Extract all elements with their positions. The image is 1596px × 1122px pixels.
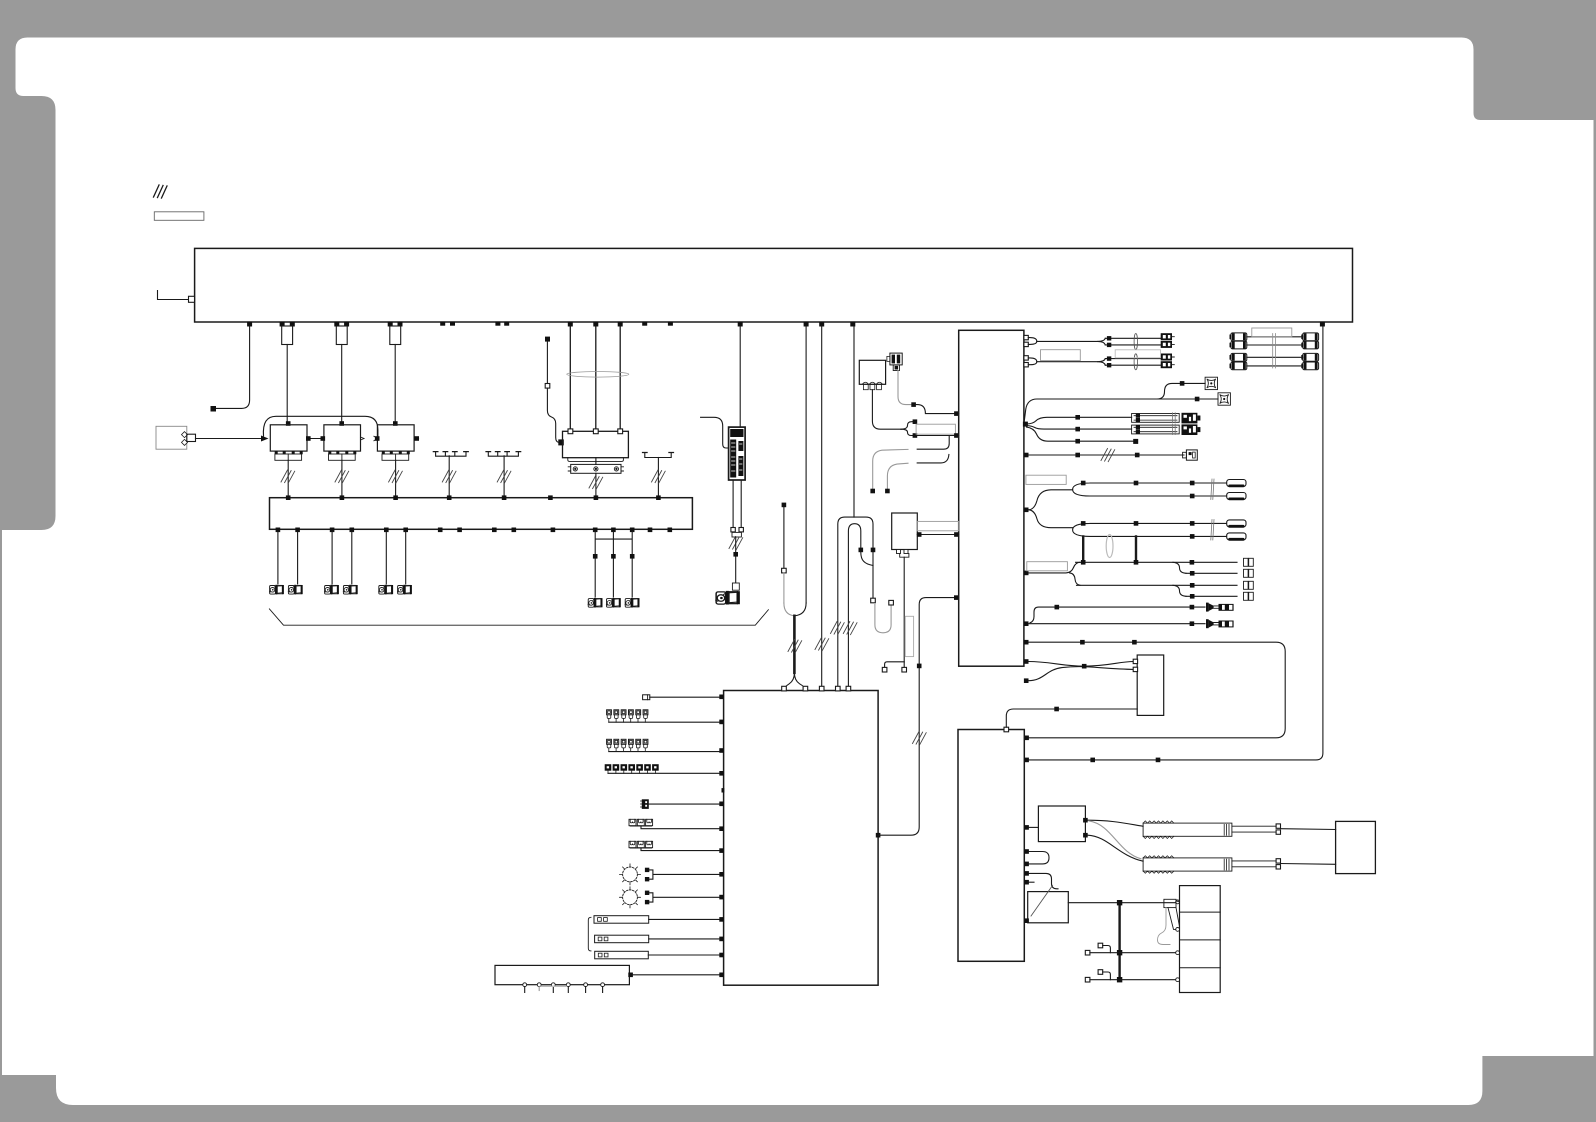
solenoid V4 — [343, 585, 358, 595]
harness label C (gray) — [1252, 328, 1292, 337]
harness label (gray) — [905, 616, 913, 656]
audio head unit — [729, 427, 746, 480]
fuse F3 — [390, 326, 401, 345]
feed row 3 — [1070, 573, 1254, 589]
bus2 top pins — [286, 495, 661, 500]
connector loop inner — [848, 524, 860, 691]
stub loop (gray U) — [875, 605, 891, 633]
input: lamp row 1 — [607, 710, 720, 722]
JB lower plate — [568, 458, 624, 462]
solenoid V3 — [324, 585, 339, 595]
ground connector group T2 — [488, 452, 518, 457]
keyless control box — [495, 965, 719, 992]
twin output row B — [1024, 354, 1174, 370]
solenoid V2 — [288, 585, 303, 595]
input: lamp row 2 — [607, 739, 720, 751]
twisted pair to relay box — [1024, 659, 1029, 664]
ECM loop wire around — [1024, 640, 1285, 740]
wire bus to audio unit — [739, 326, 741, 427]
ECU output to relay block (long riser) — [876, 833, 881, 838]
BCM stub hook — [1024, 871, 1029, 876]
branch risers — [917, 436, 949, 450]
antenna motor — [716, 591, 740, 605]
condenser fan box 2 — [1218, 393, 1230, 405]
harness loop (gray ellipse) — [1106, 535, 1113, 558]
wire R1-R2 — [307, 438, 324, 440]
wire bus to ECU pin — [821, 326, 823, 691]
input: motor group 1 — [629, 819, 719, 828]
oxygen sensor run — [1024, 449, 1197, 462]
fan wire 1 — [1157, 383, 1205, 399]
relay R1 — [286, 421, 291, 426]
harness label A (gray) — [1041, 350, 1081, 361]
wire R2-R3 — [361, 436, 378, 441]
body control module (lower right) — [958, 730, 1024, 962]
wire crossing hatch mark top-left — [154, 185, 168, 198]
door lock connector group 1 — [1230, 333, 1319, 349]
ground connector group T1 — [436, 452, 466, 457]
gray jumper bar — [917, 521, 958, 530]
sensor run 1 — [1027, 413, 1201, 424]
bundle point — [1023, 422, 1028, 427]
relay box K1 — [1137, 655, 1164, 715]
feed row 4 — [1173, 585, 1253, 600]
harness label E (gray) — [1027, 562, 1068, 571]
solenoid V7 — [588, 598, 603, 608]
BCM top feed to relay box — [1004, 727, 1009, 732]
wire switch to lamp block — [1068, 902, 1175, 904]
injector group bracket — [595, 532, 632, 597]
input: motor group 2 — [629, 841, 719, 850]
rear lamp cluster — [1180, 886, 1221, 993]
ground bus bar (second junction block) — [270, 498, 693, 530]
strip bracket — [588, 917, 591, 951]
ignition switch box — [1024, 880, 1029, 885]
wire bus to loop joint — [853, 326, 855, 517]
sensor run 3 — [1027, 427, 1139, 444]
wire sensor to relay R1 — [196, 438, 263, 440]
engine control module — [959, 330, 1024, 666]
junction box JB — [563, 431, 629, 457]
node IG input — [158, 291, 190, 300]
harness loop ellipse — [567, 372, 629, 378]
input: switch block — [641, 799, 720, 809]
ECU top pins — [782, 686, 851, 691]
relay strip (gray) — [916, 424, 955, 434]
harness label B (gray) — [1115, 350, 1160, 358]
feed wire with node (capsule left) — [782, 503, 787, 508]
solenoid V6 — [397, 585, 412, 595]
blower relay box — [1024, 825, 1029, 830]
wire to audio unit left — [701, 417, 729, 448]
twin output row A — [1024, 333, 1174, 349]
wire diag to module — [917, 534, 958, 536]
bus2 bottom pins — [276, 528, 672, 533]
condenser fan box 1 — [1205, 377, 1217, 389]
solenoid pair 2 wires — [332, 532, 352, 584]
terminal pins on main bus bottom edge — [247, 322, 1325, 327]
solenoid V8 — [606, 598, 621, 608]
connector loop outer — [838, 517, 873, 690]
harness ties — [1273, 334, 1276, 369]
sensor box (gray, far left) — [156, 426, 187, 449]
solenoid V5 — [379, 585, 394, 595]
three feed wires to junction box JB — [570, 326, 620, 429]
relay R2 — [339, 421, 344, 426]
lamp feed row 2 — [1085, 977, 1090, 982]
solenoid V9 — [625, 598, 640, 608]
antenna feed wire — [735, 537, 737, 583]
heater element 1 — [1088, 820, 1143, 826]
headlamp feed risers (thick) — [1083, 536, 1136, 562]
input: sensor strip 1 — [594, 916, 719, 924]
lamp cluster junction block — [1164, 899, 1176, 907]
horn unit — [859, 360, 885, 389]
input: sensor strip 2 — [595, 935, 720, 943]
blower motor box — [1336, 821, 1376, 873]
diagnostic ground wire — [903, 557, 905, 667]
relay R3 — [393, 421, 398, 426]
ECU left edge pins — [719, 695, 724, 978]
JB bolt strip — [571, 464, 621, 473]
headlamp bundle lower — [1029, 510, 1247, 541]
coil wire — [898, 371, 911, 405]
harness label D (gray) — [1026, 475, 1066, 484]
dangling feed wire with node — [545, 337, 550, 342]
feed row 1 — [1024, 558, 1253, 575]
Y split to ECU — [784, 673, 805, 691]
input: fan motor 1 — [620, 864, 720, 885]
fuse F2 — [336, 326, 347, 345]
sensor run 2 — [1027, 424, 1201, 435]
BCM output riser to main bus — [1024, 758, 1029, 763]
fan wire 2 — [1024, 399, 1218, 422]
main power bus B+ (top junction block) — [195, 248, 1353, 322]
feed row 2 — [1173, 562, 1253, 577]
gray jumper wires — [873, 449, 908, 489]
wire from bus to node (left drop) — [216, 326, 250, 408]
main riser (thick) — [1118, 903, 1120, 981]
BCM jumper loop — [1024, 849, 1029, 854]
input: sensor strip 3 — [595, 951, 720, 959]
fuse F1 — [282, 326, 293, 345]
label box (empty legend) — [154, 212, 204, 221]
bypass wire over relays — [263, 416, 378, 438]
headlamp bundle upper — [1024, 479, 1246, 512]
horn wire to junction — [872, 390, 901, 430]
stub on R3 right — [414, 438, 418, 440]
ground connector T3 — [645, 453, 671, 458]
input: indicator row — [605, 764, 720, 773]
door lock connector group 2 — [1230, 353, 1319, 369]
audio unit harness — [733, 480, 741, 528]
wire to engine module — [917, 435, 959, 437]
lamp feed row 1 — [1085, 950, 1090, 955]
solenoid pair 3 wires — [386, 532, 405, 584]
body ECU (central module) — [724, 691, 879, 986]
input: diagnostic plug — [643, 695, 650, 700]
input: fan motor 2 — [620, 887, 720, 908]
solenoid pair 1 wires — [278, 532, 298, 584]
solenoid V1 — [269, 585, 284, 595]
feed wire from bus (capsule right) — [805, 326, 807, 603]
joint harness thick wire — [793, 616, 796, 673]
heater element 2 — [1088, 835, 1143, 861]
horn output row B — [1024, 619, 1234, 628]
diagnostic connector box — [892, 513, 918, 557]
chassis bracket line — [269, 609, 768, 625]
ignition coil — [887, 353, 902, 370]
horn output row A — [1030, 603, 1234, 623]
